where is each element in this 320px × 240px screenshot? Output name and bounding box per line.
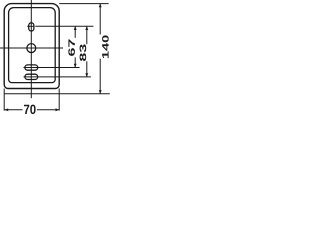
dim line 67 lower segment [74,57,76,67]
inner plate outline [9,8,56,83]
lower keyhole slot [25,74,38,79]
dim line 70 left segment [5,109,23,111]
top extension line (140 dim) [59,3,108,5]
lower keyhole slot line [24,76,91,78]
outer plate outline [4,4,59,89]
arrow right 70 [56,108,60,111]
arrow up 140 [99,4,102,8]
arrow left 70 [5,108,9,111]
upper keyhole slot line [24,67,80,69]
dim line 140 lower segment [99,59,101,94]
left extension line (70 dim) [3,89,5,111]
horizontal centerline [0,47,63,49]
arrow up 67 [74,26,77,30]
dim line 67 upper segment [74,26,76,38]
slot extension line [35,25,93,27]
arrow up 83 [85,26,88,30]
label 67 [68,39,75,56]
slot tick [27,25,34,27]
label 70 [24,105,36,115]
right extension line (70 dim) [58,89,60,111]
arrow down 67 [74,64,77,68]
label 140 [102,35,109,58]
arrow down 83 [85,73,88,77]
upper keyhole slot [25,65,38,70]
label 83 [80,44,87,61]
dim line 83 upper segment [86,26,88,44]
bottom profile line [4,93,110,95]
top slot [29,23,34,31]
vertical centerline [30,0,32,98]
arrow down 140 [99,90,102,94]
dim line 140 upper segment [99,4,101,35]
center circle [27,44,36,53]
dim line 70 right segment [37,109,59,111]
dim line 83 lower segment [86,61,88,77]
